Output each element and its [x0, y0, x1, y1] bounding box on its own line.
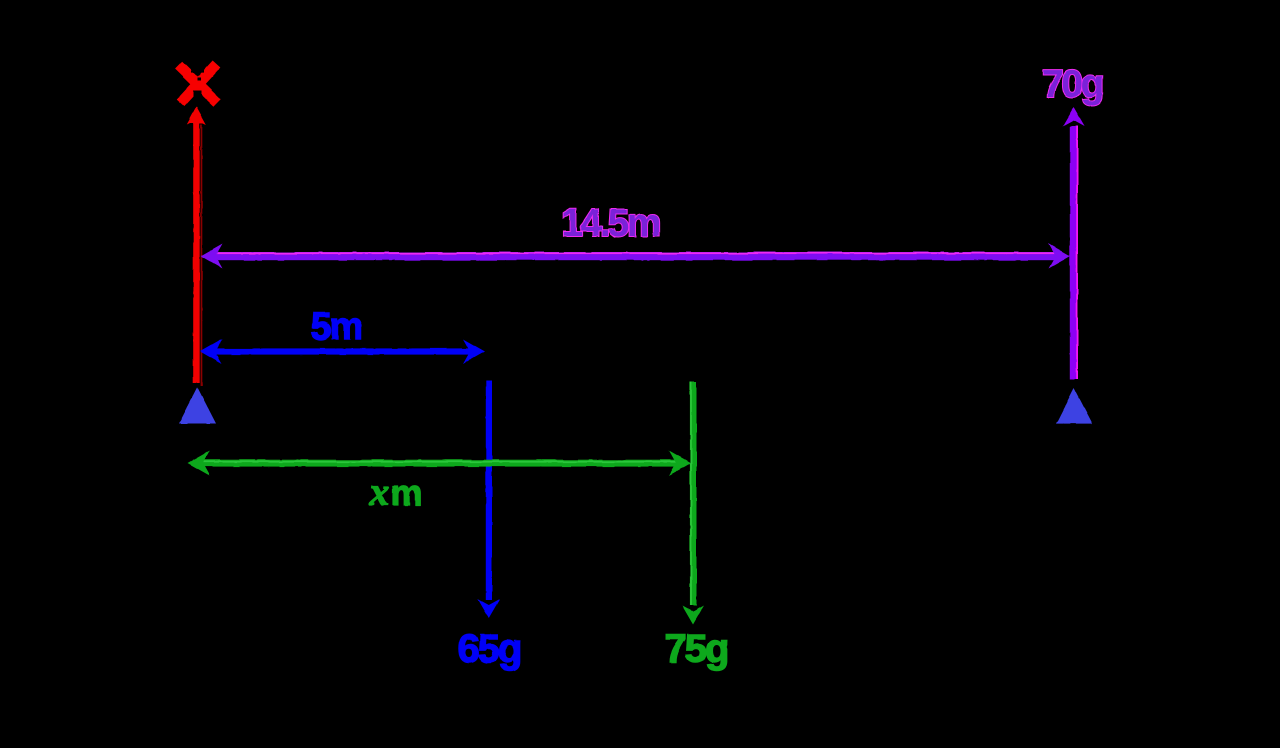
crossed-out label R (red X over black R)	[179, 64, 218, 103]
left support triangle	[179, 388, 216, 424]
dimension arrow 5m (blue, double-headed)	[200, 339, 485, 364]
svg-text:70g: 70g	[1042, 63, 1102, 106]
force arrow 75g (green, downward)	[682, 382, 704, 625]
force arrow 65g (blue, downward)	[478, 381, 500, 618]
dimension arrow xm (green, double-headed)	[188, 451, 692, 476]
right support triangle	[1056, 388, 1093, 424]
svg-text:5m: 5m	[311, 306, 362, 348]
force arrow 70g (purple, upward)	[1063, 107, 1085, 379]
svg-text:14.5m: 14.5m	[561, 202, 660, 245]
svg-text:xm: xm	[368, 469, 422, 514]
reaction force arrow R (red, upward)	[187, 107, 207, 387]
svg-text:75g: 75g	[665, 627, 728, 671]
dimension arrow 14.5m (purple, double-headed)	[201, 244, 1071, 269]
svg-text:65g: 65g	[458, 627, 521, 671]
